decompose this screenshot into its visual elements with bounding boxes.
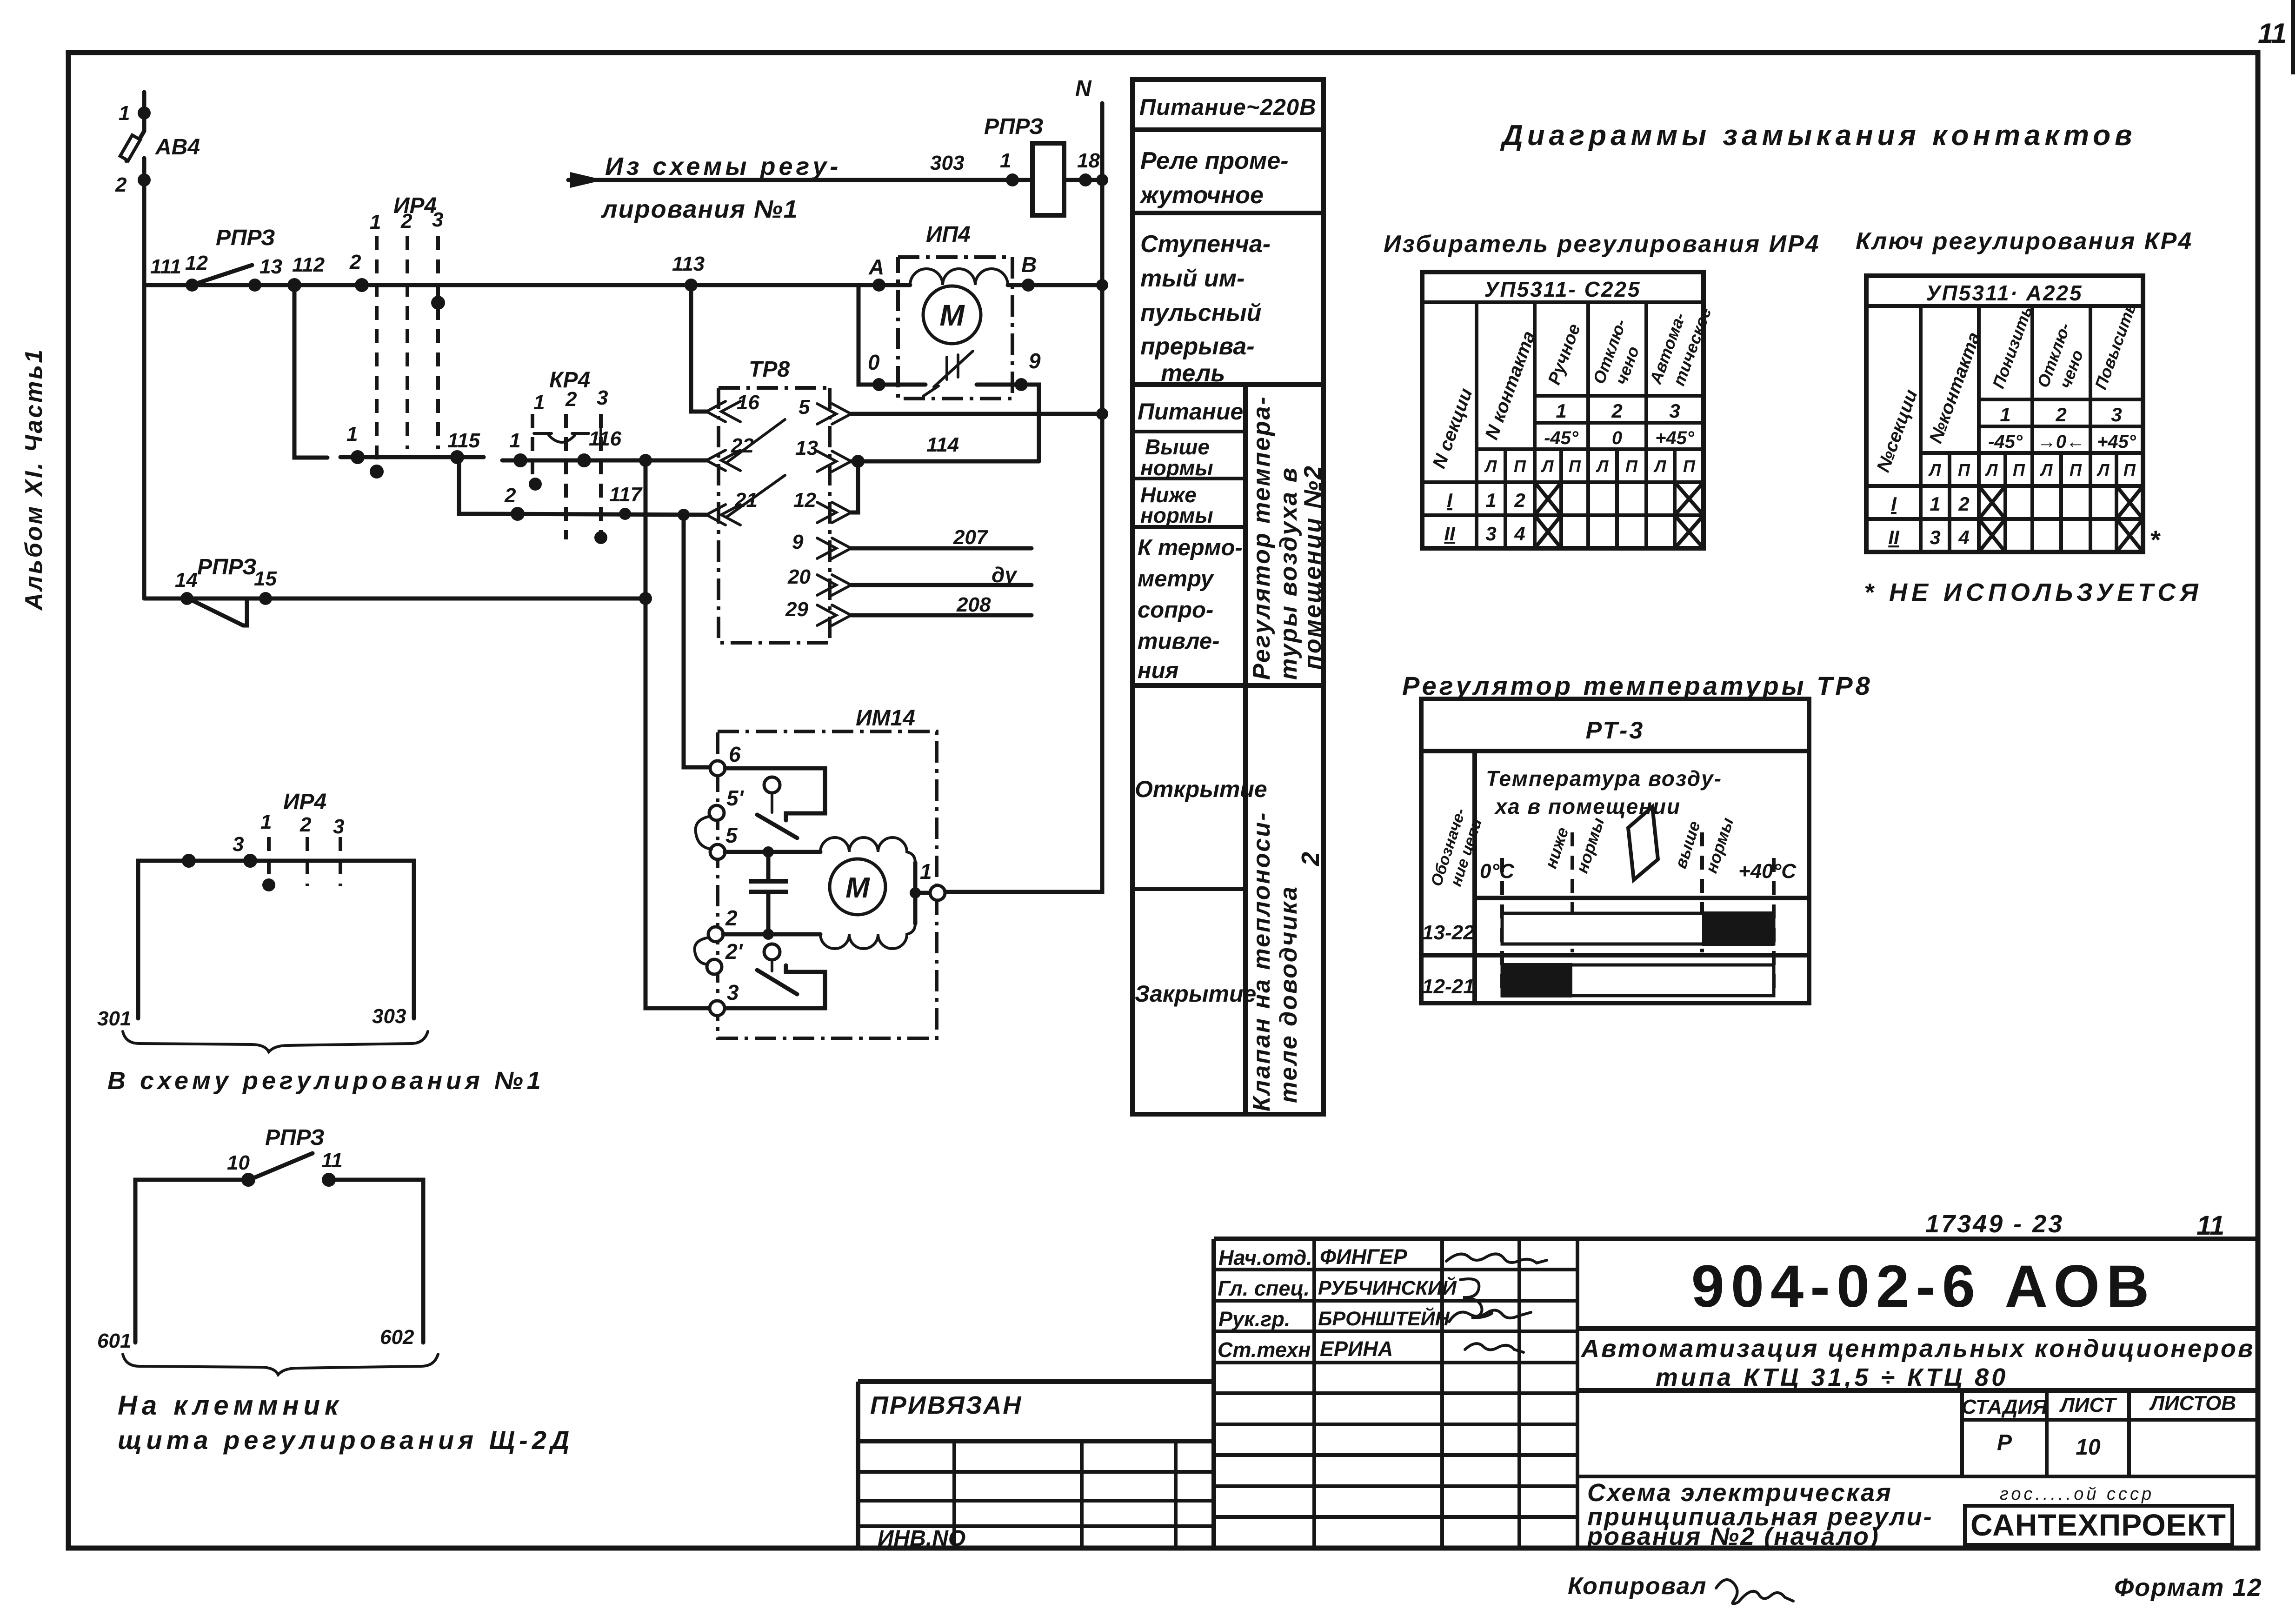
middle legend table frame bbox=[1132, 80, 1324, 1114]
svg-text:Питание: Питание bbox=[1138, 399, 1243, 425]
svg-text:12: 12 bbox=[793, 489, 816, 512]
node 10 bbox=[241, 1173, 255, 1187]
svg-text:лирования №1: лирования №1 bbox=[600, 195, 799, 223]
svg-text:N: N bbox=[1075, 76, 1092, 101]
svg-text:2: 2 bbox=[504, 484, 516, 507]
svg-text:16: 16 bbox=[737, 391, 759, 414]
wire 113 down to ТР8 contact 16 bbox=[691, 285, 706, 412]
svg-text:РПРЗ: РПРЗ bbox=[216, 226, 275, 250]
wire ду bbox=[851, 583, 1032, 587]
svg-text:3: 3 bbox=[1930, 526, 1940, 548]
svg-text:ния: ния bbox=[1138, 658, 1178, 683]
motor winding upper ИМ14 bbox=[820, 838, 915, 863]
svg-text:Л: Л bbox=[1596, 457, 1609, 476]
svg-text:0: 0 bbox=[868, 350, 880, 374]
relay contact РПРЗ 12-13 bbox=[186, 279, 199, 292]
lower limit contact of ИМ14 bbox=[725, 965, 825, 1008]
svg-text:П: П bbox=[2123, 460, 2136, 479]
svg-text:ЛИСТ: ЛИСТ bbox=[2059, 1394, 2117, 1416]
setpoint parallelogram bbox=[1628, 807, 1658, 880]
wire row 2 (117) bbox=[491, 514, 706, 515]
svg-text:1: 1 bbox=[119, 102, 130, 125]
svg-text:АВ4: АВ4 bbox=[155, 135, 200, 160]
svg-text:П: П bbox=[1958, 460, 1970, 479]
row Л П cells bbox=[1928, 460, 2136, 479]
svg-text:М: М bbox=[845, 872, 870, 904]
interrupter contact of ИП4 bbox=[923, 351, 973, 396]
svg-text:РУБЧИНСКИЙ: РУБЧИНСКИЙ bbox=[1318, 1276, 1457, 1299]
column divider bbox=[1243, 385, 1248, 1114]
svg-text:602: 602 bbox=[380, 1326, 414, 1349]
node on dashed line 1 bbox=[370, 465, 384, 479]
node 11 bbox=[322, 1173, 336, 1187]
svg-text:рования №2 (начало): рования №2 (начало) bbox=[1586, 1523, 1880, 1550]
terminal 1 of ИМ14 bbox=[930, 885, 945, 900]
привязан block bbox=[858, 1382, 1214, 1548]
breaker AB4 symbol bbox=[126, 131, 144, 161]
svg-text:ИМ14: ИМ14 bbox=[856, 706, 915, 731]
node A bbox=[872, 279, 885, 292]
svg-text:типа КТЦ 31,5 ÷ КТЦ 80: типа КТЦ 31,5 ÷ КТЦ 80 bbox=[1656, 1363, 2008, 1391]
svg-text:САНТЕХПРОЕКТ: САНТЕХПРОЕКТ bbox=[1970, 1508, 2226, 1542]
wire 115 down to row 2 bbox=[459, 457, 491, 514]
row lines bbox=[1132, 130, 1324, 685]
project name box bbox=[1577, 1388, 2258, 1393]
svg-text:БРОНШТЕЙН: БРОНШТЕЙН bbox=[1318, 1307, 1450, 1330]
svg-text:П: П bbox=[1514, 457, 1526, 476]
КР4 wiper symbol bbox=[534, 433, 589, 442]
svg-text:Копировал: Копировал bbox=[1568, 1573, 1707, 1600]
svg-text:щита регулирования Щ-2Д: щита регулирования Щ-2Д bbox=[118, 1425, 573, 1455]
svg-text:ИР4: ИР4 bbox=[393, 193, 437, 218]
wire line 115 bbox=[340, 455, 484, 459]
svg-text:Л: Л bbox=[1484, 457, 1497, 476]
svg-text:М: М bbox=[939, 299, 965, 332]
svg-text:11: 11 bbox=[2258, 18, 2287, 49]
svg-text:сопро-: сопро- bbox=[1138, 598, 1213, 623]
svg-text:301: 301 bbox=[97, 1007, 131, 1030]
node 1 of AB4 bbox=[138, 106, 151, 120]
svg-text:ИП4: ИП4 bbox=[926, 222, 971, 247]
dashed scale lines bbox=[1500, 858, 1504, 995]
svg-text:ТР8: ТР8 bbox=[749, 357, 790, 382]
svg-text:904-02-6 АОВ: 904-02-6 АОВ bbox=[1691, 1253, 2156, 1320]
svg-text:РПРЗ: РПРЗ bbox=[984, 114, 1044, 139]
svg-text:601: 601 bbox=[97, 1330, 131, 1352]
svg-text:13-22: 13-22 bbox=[1422, 921, 1475, 944]
wire 207 bbox=[851, 546, 1032, 551]
svg-text:3: 3 bbox=[597, 386, 608, 409]
svg-text:Регулятор темпера-: Регулятор темпера- bbox=[1248, 395, 1275, 680]
wire from 112 down to line 115 bbox=[294, 285, 327, 458]
svg-text:11: 11 bbox=[321, 1149, 343, 1172]
svg-text:1: 1 bbox=[509, 429, 520, 452]
node 14-15 line to down wire bbox=[639, 592, 652, 605]
node junction 117 to ИМ14 bbox=[678, 509, 690, 521]
svg-text:Питание~220В: Питание~220В bbox=[1139, 95, 1317, 120]
node ИР4 contact 1 bbox=[351, 450, 365, 464]
svg-text:УП5311- С225: УП5311- С225 bbox=[1484, 277, 1641, 301]
svg-text:РТ-3: РТ-3 bbox=[1586, 717, 1645, 744]
svg-text:ду: ду bbox=[992, 563, 1018, 587]
svg-text:Закрытие: Закрытие bbox=[1135, 981, 1256, 1007]
svg-text:1: 1 bbox=[2000, 404, 2010, 426]
svg-text:5: 5 bbox=[725, 823, 738, 847]
svg-text:4: 4 bbox=[1514, 523, 1525, 545]
svg-text:Нач.отд.: Нач.отд. bbox=[1218, 1246, 1312, 1270]
wire main to 0 bbox=[859, 285, 872, 385]
svg-text:ЕРИНА: ЕРИНА bbox=[1320, 1337, 1393, 1361]
svg-text:11: 11 bbox=[2196, 1210, 2224, 1241]
svg-text:Л: Л bbox=[1928, 460, 1942, 479]
svg-text:Л: Л bbox=[2040, 460, 2053, 479]
svg-text:прерыва-: прерыва- bbox=[1140, 333, 1255, 360]
node on dashed line 3 bbox=[431, 296, 445, 310]
svg-text:ИР4: ИР4 bbox=[283, 790, 326, 814]
svg-text:2: 2 bbox=[1611, 400, 1622, 422]
svg-text:6: 6 bbox=[729, 742, 741, 766]
svg-text:117: 117 bbox=[609, 483, 643, 506]
brace bbox=[123, 1354, 438, 1375]
node 0 bbox=[872, 378, 885, 391]
svg-text:П: П bbox=[2013, 460, 2025, 479]
svg-text:3: 3 bbox=[432, 208, 443, 231]
node 112 bbox=[287, 278, 301, 292]
svg-text:УП5311· А225: УП5311· А225 bbox=[1926, 281, 2083, 305]
svg-text:303: 303 bbox=[372, 1005, 406, 1028]
svg-text:ПРИВЯЗАН: ПРИВЯЗАН bbox=[870, 1391, 1022, 1419]
svg-text:303: 303 bbox=[930, 152, 964, 174]
svg-text:1: 1 bbox=[1485, 489, 1496, 511]
inductor ИП4 winding bbox=[879, 283, 1035, 287]
svg-text:Реле проме-: Реле проме- bbox=[1140, 147, 1289, 174]
terminal 5 bbox=[710, 844, 725, 859]
wire pin13 junction to pin 12 bbox=[851, 461, 858, 512]
svg-text:2': 2' bbox=[725, 939, 744, 964]
title block outer bbox=[1214, 1239, 2258, 1548]
svg-text:1: 1 bbox=[370, 211, 381, 233]
svg-text:2: 2 bbox=[2055, 404, 2066, 426]
svg-text:0°С: 0°С bbox=[1480, 860, 1515, 883]
svg-text:В: В bbox=[1021, 253, 1037, 277]
svg-text:10: 10 bbox=[2076, 1435, 2101, 1460]
svg-text:2: 2 bbox=[1297, 852, 1324, 866]
svg-text:9: 9 bbox=[792, 531, 804, 553]
svg-text:тый им-: тый им- bbox=[1140, 265, 1244, 292]
motor M of ИП4 bbox=[923, 286, 981, 344]
upper limit contact of ИМ14 bbox=[725, 768, 825, 820]
wire row 2 bbox=[723, 932, 820, 937]
svg-text:Открытие: Открытие bbox=[1135, 776, 1267, 802]
terminal 2' bbox=[707, 959, 722, 974]
svg-text:1: 1 bbox=[1556, 400, 1566, 422]
thermostat diagram РТ-3 frame bbox=[1421, 699, 1809, 1003]
svg-text:1: 1 bbox=[1930, 493, 1940, 515]
motor winding lower ИМ14 bbox=[820, 924, 915, 949]
svg-text:II: II bbox=[1888, 526, 1900, 548]
svg-text:Регулятор температуры ТР8: Регулятор температуры ТР8 bbox=[1402, 671, 1873, 700]
ТР8 pin 13 arrow bbox=[817, 451, 851, 472]
ТР8 pin 5 arrow bbox=[817, 404, 851, 424]
svg-text:Ст.техн: Ст.техн bbox=[1218, 1338, 1311, 1362]
svg-text:114: 114 bbox=[926, 433, 959, 456]
wire main line 111 bbox=[144, 283, 879, 287]
svg-text:* НЕ ИСПОЛЬЗУЕТСЯ: * НЕ ИСПОЛЬЗУЕТСЯ bbox=[1864, 578, 2203, 606]
svg-text:РПРЗ: РПРЗ bbox=[265, 1125, 325, 1150]
svg-text:Л: Л bbox=[2096, 460, 2110, 479]
svg-text:Альбом XI. Часть1: Альбом XI. Часть1 bbox=[20, 348, 47, 611]
svg-text:На клеммник: На клеммник bbox=[118, 1390, 343, 1421]
svg-text:116: 116 bbox=[589, 427, 622, 450]
svg-text:15: 15 bbox=[254, 567, 277, 590]
svg-text:Схема электрическая: Схема электрическая bbox=[1587, 1479, 1892, 1507]
svg-text:А: А bbox=[868, 255, 884, 279]
стадия лист листов bbox=[1577, 1390, 2258, 1476]
svg-text:3: 3 bbox=[2111, 404, 2122, 426]
svg-text:2: 2 bbox=[1958, 493, 1969, 515]
svg-text:Клапан на теплоноси-: Клапан на теплоноси- bbox=[1248, 811, 1275, 1111]
svg-text:113: 113 bbox=[672, 253, 705, 275]
wire 114 up to ИП4 pin 9 bbox=[1028, 385, 1039, 461]
terminal 3 bbox=[710, 1001, 725, 1016]
svg-text:П: П bbox=[2070, 460, 2082, 479]
svg-text:II: II bbox=[1444, 523, 1456, 545]
svg-text:13: 13 bbox=[795, 437, 818, 459]
svg-text:3: 3 bbox=[727, 980, 739, 1004]
node 116 bbox=[577, 453, 591, 467]
wire 303 with arrow bbox=[568, 178, 1033, 182]
svg-text:*: * bbox=[2150, 525, 2161, 554]
svg-text:207: 207 bbox=[953, 526, 989, 549]
svg-text:Формат 12: Формат 12 bbox=[2114, 1574, 2262, 1602]
svg-text:29: 29 bbox=[785, 598, 808, 621]
svg-text:14: 14 bbox=[175, 569, 198, 592]
svg-text:2: 2 bbox=[349, 251, 361, 273]
node on loop bbox=[182, 854, 196, 868]
svg-text:5: 5 bbox=[799, 396, 810, 419]
terminal 6 bbox=[710, 761, 725, 776]
wire row 5 bbox=[725, 850, 820, 854]
node 18 of РПРЗ coil bbox=[1065, 178, 1102, 182]
node КР4 contact 2 bbox=[511, 507, 525, 521]
svg-text:туры воздуха в: туры воздуха в bbox=[1275, 466, 1302, 680]
node on КР4 dash 3 bbox=[594, 531, 607, 544]
wire 0 to switch to 9 bbox=[885, 383, 1015, 387]
svg-text:П: П bbox=[1625, 457, 1638, 476]
svg-text:П: П bbox=[1569, 457, 1581, 476]
svg-text:Избиратель регулирования ИР4: Избиратель регулирования ИР4 bbox=[1384, 231, 1820, 258]
ТР8 pin 12 arrow bbox=[817, 502, 851, 523]
wire 301-303 loop bbox=[138, 861, 414, 1018]
svg-text:1: 1 bbox=[920, 859, 932, 884]
svg-text:18: 18 bbox=[1077, 149, 1100, 172]
terminal 5' bbox=[709, 805, 724, 820]
svg-text:Автоматизация центральных конд: Автоматизация центральных кондиционеров bbox=[1580, 1335, 2255, 1363]
svg-text:теле доводчика: теле доводчика bbox=[1275, 885, 1302, 1103]
ТР8 pin 29 arrow bbox=[817, 605, 851, 625]
node on КР4 dash 1 bbox=[529, 478, 542, 491]
capacitor of ИМ14 bbox=[766, 852, 771, 881]
wire РПРЗ junction down to ИМ14 terminal 3 bbox=[646, 460, 711, 1008]
svg-text:I: I bbox=[1891, 493, 1897, 515]
personnel table grid bbox=[1314, 1239, 1577, 1548]
svg-text:Гл. спец.: Гл. спец. bbox=[1218, 1277, 1310, 1300]
wire 208 bbox=[851, 613, 1032, 618]
svg-text:пульсный: пульсный bbox=[1140, 299, 1261, 326]
ТР8 pin 21 arrow bbox=[706, 505, 740, 525]
cam bracket 2-2' bbox=[695, 937, 709, 964]
table УП5311-С225 frame bbox=[1422, 272, 1704, 548]
ТР8 pin 9 arrow bbox=[817, 538, 851, 558]
svg-text:СТАДИЯ: СТАДИЯ bbox=[1962, 1396, 2048, 1418]
svg-text:помещении №2: помещении №2 bbox=[1299, 465, 1326, 670]
table УП5311-А225 frame bbox=[1866, 276, 2143, 552]
brace bbox=[123, 1031, 428, 1052]
svg-text:+40°С: +40°С bbox=[1738, 860, 1797, 883]
svg-text:5': 5' bbox=[726, 786, 745, 810]
node below dash 1 bbox=[262, 878, 275, 891]
svg-text:17349 - 23: 17349 - 23 bbox=[1925, 1210, 2064, 1238]
svg-text:1: 1 bbox=[346, 423, 358, 445]
svg-text:3: 3 bbox=[333, 815, 344, 838]
svg-text:Р: Р bbox=[1997, 1430, 2012, 1455]
svg-text:гос.....ой ссср: гос.....ой ссср bbox=[2000, 1484, 2154, 1504]
wire row 1 (116) bbox=[502, 459, 706, 463]
svg-text:К термо-: К термо- bbox=[1138, 535, 1243, 560]
svg-text:208: 208 bbox=[956, 593, 991, 616]
svg-text:РПРЗ: РПРЗ bbox=[197, 555, 257, 579]
project number box bbox=[1577, 1326, 2258, 1331]
breaker AB4 terminal 1 stub bbox=[142, 92, 146, 131]
motor M of ИМ14 bbox=[830, 859, 885, 915]
svg-text:20: 20 bbox=[787, 565, 811, 588]
svg-text:-45°: -45° bbox=[1988, 432, 2023, 452]
svg-text:-45°: -45° bbox=[1544, 428, 1579, 448]
svg-text:115: 115 bbox=[447, 429, 480, 452]
svg-text:1: 1 bbox=[260, 811, 272, 833]
svg-text:112: 112 bbox=[292, 253, 325, 276]
svg-text:1: 1 bbox=[533, 391, 545, 414]
wire 117 down to ИМ14 terminal 6 bbox=[684, 515, 711, 767]
signature after Копировал bbox=[1716, 1580, 1793, 1604]
svg-text:3: 3 bbox=[233, 833, 244, 856]
svg-text:12-21: 12-21 bbox=[1422, 975, 1475, 998]
svg-text:ЛИСТОВ: ЛИСТОВ bbox=[2149, 1392, 2236, 1415]
svg-text:Из схемы регу-: Из схемы регу- bbox=[605, 153, 841, 180]
node B bbox=[1022, 279, 1035, 292]
node contact 3 bbox=[243, 854, 257, 868]
contact blade 10-11 bbox=[255, 1153, 313, 1177]
ТР8 pin 20 arrow bbox=[817, 575, 851, 595]
svg-text:10: 10 bbox=[227, 1151, 250, 1174]
node КР4 contact 1 bbox=[513, 453, 527, 467]
wire windings to terminal 1 bbox=[915, 863, 930, 924]
svg-text:12: 12 bbox=[185, 252, 208, 274]
svg-text:2: 2 bbox=[1514, 489, 1525, 511]
svg-text:П: П bbox=[1683, 457, 1696, 476]
svg-text:ФИНГЕР: ФИНГЕР bbox=[1320, 1245, 1408, 1269]
ТР8 pin 22 arrow bbox=[706, 450, 740, 471]
node ИР4 contact 2 bbox=[355, 278, 369, 292]
svg-text:Температура возду-: Температура возду- bbox=[1486, 766, 1722, 791]
svg-text:ИНВ.NO: ИНВ.NO bbox=[878, 1526, 965, 1551]
svg-text:9: 9 bbox=[1029, 349, 1041, 373]
node 2 of AB4 bbox=[138, 173, 151, 186]
svg-text:3: 3 bbox=[1485, 523, 1496, 545]
svg-text:+45°: +45° bbox=[2097, 432, 2136, 452]
svg-text:1: 1 bbox=[1000, 149, 1011, 172]
node 1 of РПРЗ coil bbox=[1006, 173, 1019, 186]
svg-text:тель: тель bbox=[1161, 360, 1225, 387]
svg-text:13: 13 bbox=[260, 255, 282, 278]
svg-text:2: 2 bbox=[565, 388, 577, 411]
node 115 bbox=[450, 450, 464, 464]
svg-text:2: 2 bbox=[725, 906, 738, 930]
row Л П cells bbox=[1484, 457, 1696, 476]
wire left bus x310 bbox=[142, 158, 146, 598]
svg-text:Л: Л bbox=[1541, 457, 1554, 476]
svg-text:Рук.гр.: Рук.гр. bbox=[1218, 1307, 1290, 1331]
svg-text:Ключ регулирования КР4: Ключ регулирования КР4 bbox=[1856, 228, 2193, 255]
svg-text:2: 2 bbox=[400, 210, 413, 233]
svg-text:тивле-: тивле- bbox=[1138, 629, 1220, 654]
wire 114 bbox=[851, 459, 1039, 464]
wire B to N bbox=[1035, 283, 1102, 287]
svg-text:111: 111 bbox=[150, 255, 181, 278]
svg-text:I: I bbox=[1447, 489, 1453, 511]
node 113 bbox=[685, 279, 698, 292]
svg-text:0: 0 bbox=[1612, 428, 1622, 448]
cam bracket 5'-5 bbox=[696, 816, 712, 849]
svg-text:Л: Л bbox=[1985, 460, 1998, 479]
svg-text:нормы: нормы bbox=[1140, 503, 1213, 527]
svg-text:нормы: нормы bbox=[1140, 456, 1213, 480]
svg-text:жуточное: жуточное bbox=[1139, 182, 1264, 209]
node junction to РПРЗ 14-15 bbox=[639, 454, 652, 467]
svg-text:→0←: →0← bbox=[2037, 432, 2085, 452]
svg-text:2: 2 bbox=[115, 173, 127, 196]
svg-text:метру: метру bbox=[1138, 566, 1215, 592]
svg-text:+45°: +45° bbox=[1655, 428, 1695, 448]
node 117 bbox=[619, 508, 631, 520]
svg-text:3: 3 bbox=[1669, 400, 1680, 422]
wire 601-602 loop bbox=[135, 1180, 423, 1343]
node 9 of ИП4 bbox=[1015, 378, 1028, 391]
ТР8 pin 16 arrow bbox=[706, 401, 740, 422]
svg-text:4: 4 bbox=[1958, 526, 1969, 548]
wire pin5 to N bbox=[851, 412, 1102, 416]
svg-text:2: 2 bbox=[299, 813, 312, 836]
svg-text:Л: Л bbox=[1653, 457, 1667, 476]
terminal 2 bbox=[708, 927, 723, 942]
svg-text:В схему регулирования №1: В схему регулирования №1 bbox=[107, 1067, 545, 1095]
svg-text:Ступенча-: Ступенча- bbox=[1140, 231, 1271, 258]
svg-text:Диаграммы замыкания контакто: Диаграммы замыкания контактов bbox=[1500, 120, 2136, 152]
